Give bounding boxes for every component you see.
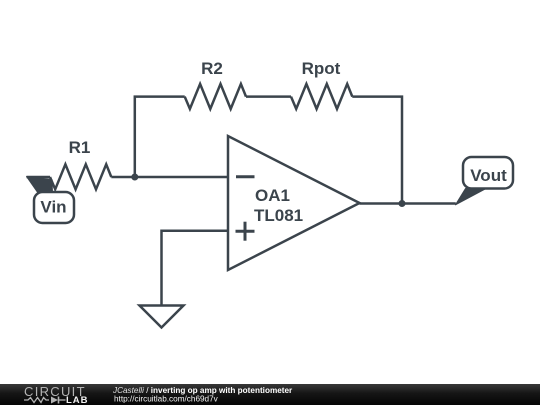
resistor Rpot [291,84,352,109]
svg-text:Rpot: Rpot [302,59,341,78]
wire op-amp output [360,202,456,205]
wire node A up and right to R2 [135,97,185,179]
Vin flag bubble [34,192,74,223]
op-amp plus symbol [236,222,255,241]
svg-text:http://circuitlab.com/ch69d7v: http://circuitlab.com/ch69d7v [114,395,219,404]
svg-text:OA1: OA1 [255,186,290,205]
svg-text:Vout: Vout [470,166,507,185]
wire op-amp non-inverting input [162,231,229,306]
svg-text:TL081: TL081 [254,206,303,225]
Vout flag bubble [463,157,513,189]
wire R2 to Rpot [246,95,291,98]
CircuitLab logo diode [51,397,58,404]
wire Vin tip to R1 [27,176,51,179]
op-amp minus symbol [236,175,255,178]
node A junction dot [131,174,138,181]
svg-text:R2: R2 [201,59,223,78]
resistor R2 [185,84,246,109]
CircuitLab logo resistor zigzag [24,398,49,403]
wire Rpot right and down to node B [352,97,402,205]
Vin flag pointer [27,177,53,194]
ground [140,306,184,328]
footer bar [0,384,540,405]
svg-text:LAB: LAB [66,395,89,405]
wire node A to op-amp inverting input [135,176,228,179]
op-amp U1 triangle [228,136,360,270]
node B output junction dot [399,200,406,207]
svg-text:Vin: Vin [40,198,66,217]
wire R1 to node A [111,176,135,179]
svg-text:R1: R1 [69,138,91,157]
resistor R1 [50,164,111,189]
Vout flag pointer [456,189,487,205]
